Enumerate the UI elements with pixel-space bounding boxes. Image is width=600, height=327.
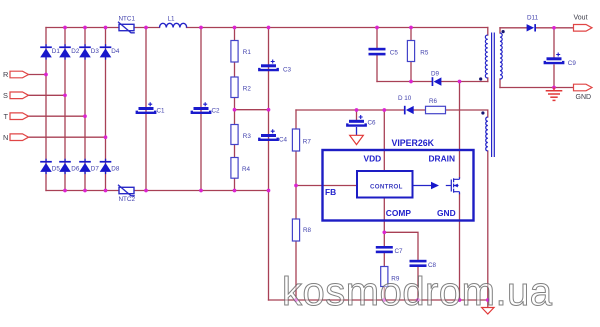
svg-text:D6: D6	[71, 165, 80, 172]
svg-text:D4: D4	[111, 48, 120, 55]
wire comp pin	[383, 198, 385, 247]
terminal labels	[3, 14, 591, 142]
ground flag bottom rail	[482, 308, 494, 315]
wire VDD row	[296, 109, 404, 111]
wire C5 bottom lead	[376, 55, 378, 81]
diode D1	[40, 44, 52, 59]
svg-text:D11: D11	[527, 15, 539, 22]
svg-text:Vout: Vout	[574, 14, 588, 21]
node top bus D3	[83, 26, 87, 30]
svg-text:VDD: VDD	[364, 154, 382, 164]
node top bus D2	[63, 26, 67, 30]
wire top bus left segment	[46, 27, 160, 29]
svg-text:S: S	[3, 91, 8, 100]
chip labels	[325, 138, 456, 218]
node VDD row C6	[355, 108, 359, 112]
wire R5 top lead	[410, 28, 412, 41]
node top bus R1	[233, 26, 237, 30]
svg-text:C8: C8	[428, 262, 437, 269]
wire secondary top pin	[499, 28, 501, 33]
node drain top	[458, 80, 462, 84]
wire C1 column	[145, 28, 147, 191]
diode D8	[100, 159, 112, 174]
svg-text:C6: C6	[368, 120, 377, 127]
svg-text:R: R	[3, 70, 8, 79]
svg-text:D5: D5	[52, 165, 61, 172]
svg-text:C3: C3	[283, 67, 292, 74]
node rail R9	[382, 298, 386, 302]
svg-text:C2: C2	[212, 107, 221, 114]
control block	[357, 171, 413, 198]
wire VDD row D10 to R6	[413, 109, 426, 111]
wire R9 to rail	[383, 287, 385, 301]
wire comp row to C8	[384, 232, 418, 259]
node T phase	[83, 114, 87, 118]
resistor R9	[381, 267, 388, 287]
thermistor NTC2	[118, 185, 135, 196]
capacitor C5 (plate)	[369, 48, 386, 56]
wire R7 top to VDD row	[295, 110, 297, 129]
node rail C8	[416, 298, 420, 302]
node gnd row C9	[552, 86, 556, 90]
wire column2 (D2/D6)	[64, 28, 66, 191]
diode D6	[59, 159, 71, 174]
wire column1 (D1/D5)	[45, 28, 47, 191]
wire C6 stub	[356, 110, 358, 120]
inductor L1	[160, 23, 187, 27]
diode D2	[59, 44, 71, 59]
svg-text:NTC2: NTC2	[119, 196, 136, 203]
diode D4	[100, 44, 112, 59]
thermistor NTC1	[118, 22, 135, 33]
svg-text:D2: D2	[71, 48, 80, 55]
node rail GND pin	[458, 298, 462, 302]
svg-text:D3: D3	[91, 48, 100, 55]
node divider row R3	[233, 108, 237, 112]
diode D3	[79, 44, 91, 59]
ground flag below C6	[350, 127, 364, 145]
node snubber R5	[409, 80, 413, 84]
wire minus column down	[268, 191, 270, 301]
node top bus C1	[144, 26, 148, 30]
resistor R2	[231, 77, 238, 98]
wire FB row	[296, 185, 357, 187]
transformer secondary phase dot	[502, 30, 505, 33]
wire C8 to rail	[417, 267, 419, 300]
wire R1 R2 column	[234, 28, 236, 110]
capacitor C7 (plate)	[376, 246, 393, 253]
wire input T to node	[28, 115, 85, 117]
capacitor C2 (electrolytic)	[192, 102, 210, 113]
transistor Q1 internal mosfet	[446, 177, 460, 194]
wire primary bottom pin	[487, 78, 489, 82]
wire column3 (D3/D7)	[84, 28, 86, 191]
svg-text:D 10: D 10	[398, 95, 412, 102]
resistor R4	[231, 158, 238, 179]
wire aux gnd stub	[487, 300, 489, 307]
diode D7	[79, 159, 91, 174]
svg-text:R7: R7	[303, 138, 312, 145]
capacitor C9 (electrolytic)	[545, 53, 563, 64]
wire input R to node	[28, 74, 46, 76]
node top bus C5	[375, 26, 379, 30]
capacitor C3 (electrolytic)	[259, 60, 277, 71]
svg-text:D7: D7	[91, 165, 100, 172]
connector GND	[574, 84, 593, 91]
wire column4 (D4/D8)	[105, 28, 107, 191]
connector N	[10, 134, 29, 141]
node COMP split	[382, 230, 386, 234]
capacitor C4 (electrolytic)	[259, 129, 277, 140]
svg-text:T: T	[4, 112, 9, 121]
diode D11	[527, 24, 536, 31]
wire C7 to R9	[383, 253, 385, 266]
resistor R5	[407, 41, 414, 62]
resistor R1	[231, 41, 238, 63]
capacitor C6 (electrolytic)	[347, 115, 365, 126]
wire R3 R4 column	[234, 110, 236, 191]
node R phase	[44, 73, 48, 77]
svg-text:N: N	[3, 133, 8, 142]
wire R8 bottom to rail	[295, 241, 297, 300]
wire R8 top	[295, 186, 297, 220]
wire D11 to Vout	[536, 27, 574, 29]
svg-text:D8: D8	[111, 165, 120, 172]
svg-text:C4: C4	[279, 136, 288, 143]
wire secondary bottom pin	[499, 79, 501, 88]
connector Vout	[574, 25, 593, 32]
wire D9 to drain node	[441, 81, 487, 83]
wire divider row R2-C3	[235, 109, 269, 111]
svg-text:R3: R3	[243, 133, 252, 140]
svg-text:FB: FB	[325, 187, 336, 197]
transformer secondary winding	[500, 33, 502, 79]
node VDD row pin	[382, 108, 386, 112]
svg-text:R8: R8	[303, 227, 312, 234]
wire C9 bottom lead	[553, 65, 555, 88]
wire bottom bus	[46, 190, 269, 192]
wire drain pin	[459, 82, 461, 178]
resistor R8	[292, 219, 299, 241]
svg-text:L1: L1	[168, 16, 176, 23]
wire VDD row R6 to aux winding	[446, 110, 488, 117]
wire C9 top lead	[553, 28, 555, 58]
diode D5	[40, 159, 52, 174]
diode D10	[404, 106, 414, 115]
node bottom bus C2	[199, 189, 203, 193]
svg-text:C9: C9	[568, 60, 577, 67]
connector T	[10, 113, 29, 120]
node bottom bus D6	[63, 189, 67, 193]
node bottom bus D8	[104, 189, 108, 193]
svg-text:C5: C5	[390, 50, 399, 57]
node top bus C2	[199, 26, 203, 30]
wire gnd row	[500, 87, 574, 89]
resistor R6 (horizontal)	[426, 106, 446, 113]
svg-text:D9: D9	[431, 71, 440, 78]
node top bus R5	[409, 26, 413, 30]
op-amp U1 VIPER26K chip body	[323, 150, 474, 221]
diode D9	[432, 77, 442, 86]
node bottom bus R4	[233, 189, 237, 193]
wire C3 C4 column	[268, 28, 270, 191]
svg-text:D1: D1	[52, 48, 61, 55]
svg-text:DRAIN: DRAIN	[429, 154, 456, 164]
svg-text:CONTROL: CONTROL	[370, 184, 403, 191]
wire input N to node	[28, 136, 105, 138]
svg-text:COMP: COMP	[386, 208, 412, 218]
node top bus C3	[267, 26, 271, 30]
resistor R3	[231, 125, 238, 145]
wire primary top pin	[487, 28, 489, 36]
node S phase	[63, 93, 67, 97]
node divider row C4	[267, 108, 271, 112]
transformer aux phase dot	[481, 111, 484, 114]
svg-text:NTC1: NTC1	[119, 16, 136, 23]
svg-text:R4: R4	[242, 166, 251, 173]
connector R	[10, 71, 29, 78]
transformer primary winding	[485, 35, 487, 78]
wire gnd pin	[459, 194, 461, 300]
svg-text:kosmodrom.ua: kosmodrom.ua	[282, 270, 553, 314]
svg-text:R6: R6	[429, 98, 438, 105]
resistor R7	[292, 129, 299, 151]
wire secondary to D11	[500, 27, 527, 29]
wire aux bottom to rail	[487, 151, 489, 300]
node bottom bus C1	[144, 189, 148, 193]
node bottom bus D7	[83, 189, 87, 193]
capacitor C1 (electrolytic)	[137, 102, 155, 113]
wire C2 column	[200, 28, 202, 191]
svg-text:R1: R1	[243, 49, 252, 56]
gate drive arrow	[413, 182, 439, 190]
wire snubber row to D9	[377, 81, 432, 83]
transformer primary phase dot	[479, 77, 482, 80]
node FB divider	[294, 184, 298, 188]
node rail aux	[486, 298, 490, 302]
node top bus D4	[104, 26, 108, 30]
svg-text:VIPER26K: VIPER26K	[392, 138, 435, 148]
wire VDD pin into chip	[383, 110, 385, 171]
wire input S to node	[28, 94, 65, 96]
ground earth symbol	[546, 88, 563, 101]
node bottom bus minus column	[267, 189, 271, 193]
wire R7 bottom to FB row	[295, 151, 297, 186]
capacitor C8 (plate)	[410, 260, 427, 267]
transformer core	[492, 33, 495, 158]
svg-text:C1: C1	[157, 107, 166, 114]
svg-text:GND: GND	[437, 208, 456, 218]
wire C5 top lead	[376, 28, 378, 48]
svg-text:R2: R2	[243, 86, 252, 93]
wire R5 bottom lead	[410, 62, 412, 82]
svg-text:R5: R5	[420, 50, 429, 57]
wire bottom rail	[269, 299, 488, 301]
svg-text:C7: C7	[395, 248, 404, 255]
wire top bus right segment after L1	[187, 27, 488, 29]
connector S	[10, 92, 29, 99]
node rail R8	[294, 298, 298, 302]
transformer aux winding	[486, 117, 488, 151]
node Vout C9	[552, 26, 556, 30]
node N phase	[104, 135, 108, 139]
svg-text:GND: GND	[576, 94, 592, 101]
